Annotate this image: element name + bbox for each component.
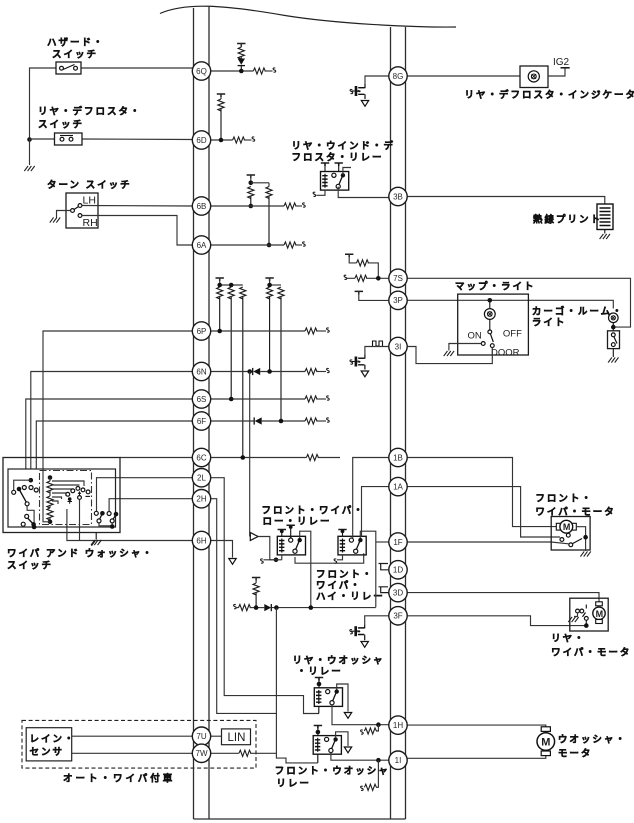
high relay contact riser to 1F line (360, 531, 376, 607)
2L wire right descent (210, 478, 319, 714)
connector 3B (389, 187, 407, 205)
svg-text:ワイパ・: ワイパ・ (316, 580, 362, 592)
7W line with resistor (211, 752, 239, 754)
RH wire to 6A (82, 216, 193, 246)
pull-up resistor above 6D (217, 94, 225, 97)
wire from wiper feedback to front washer relay (276, 608, 317, 763)
svg-text:DOOR: DOOR (491, 348, 520, 359)
junction on 7S row (376, 276, 381, 281)
rear wiper motor M2 (570, 598, 608, 631)
svg-text:マップ・ライト: マップ・ライト (455, 281, 536, 293)
2L wire to washer switch (97, 478, 194, 512)
LH wire to 6B (82, 205, 193, 208)
power tap bank 1 (216, 278, 224, 281)
6H right continuation arrow (210, 541, 233, 558)
6H row left to wiper switch (67, 509, 193, 541)
3B row right to heated print (406, 197, 605, 205)
svg-text:ハイ・リレー: ハイ・リレー (316, 592, 385, 603)
map light switch (489, 319, 491, 329)
svg-text:フロスタ・リレー: フロスタ・リレー (292, 152, 384, 164)
rear defroster indicator lamp L1 (520, 66, 548, 88)
continuation hook 6D (252, 137, 255, 141)
washer lead down to 6H wire (79, 500, 81, 541)
7S right wire to cargo lamp (406, 278, 631, 327)
resistor R 6D row (233, 137, 245, 143)
cargo light door switch (608, 331, 620, 349)
stepped wiring (52, 481, 84, 486)
connector 6S (192, 390, 210, 408)
connector 3F (389, 607, 407, 625)
6S row (210, 398, 305, 400)
junction on 6A row (267, 243, 272, 248)
ground arrow below Q2 (361, 371, 368, 377)
left connector rail (193, 8, 195, 819)
svg-text:3I: 3I (395, 342, 402, 351)
svg-text:M: M (563, 522, 571, 532)
connector 3D (389, 583, 407, 601)
svg-text:6N: 6N (196, 367, 206, 376)
3F wire right to rear motor (406, 616, 587, 626)
svg-text:OFF: OFF (503, 329, 522, 340)
upper feed resistor row (345, 254, 353, 257)
6C row (210, 457, 306, 459)
connector 6H (192, 531, 210, 549)
turn switch common to ground (57, 211, 71, 218)
junction 6D (219, 138, 224, 143)
DOOR contact wire to 3I (406, 347, 493, 364)
LIN transceiver (211, 735, 222, 737)
sensing resistor at 1I (376, 760, 378, 787)
wiper switch lower blade (27, 506, 34, 527)
continuation hook 6A (303, 242, 306, 246)
svg-text:ワイパ・モータ: ワイパ・モータ (551, 647, 631, 659)
6P left wire to wiper switch (43, 331, 193, 469)
power tap bank 2 (265, 278, 273, 281)
junction at defroster branch (27, 137, 32, 142)
row junctions and wire (272, 607, 376, 609)
svg-text:フロント・ワイパ・: フロント・ワイパ・ (262, 505, 365, 517)
1F wire right to motor switch (406, 542, 569, 544)
8G left wire to transistor (365, 76, 391, 84)
svg-text:1D: 1D (393, 566, 403, 575)
8G right wire to indicator (406, 75, 521, 77)
continuation hook 6B (303, 203, 306, 207)
auto wiper unit dash-dot box (40, 471, 92, 525)
connector 3I (389, 337, 407, 355)
6F row (210, 420, 254, 422)
transistor Q1 (body control output) (359, 84, 365, 88)
svg-text:1F: 1F (393, 538, 402, 547)
connector 1A (389, 477, 407, 495)
svg-text:6Q: 6Q (196, 67, 207, 76)
svg-text:オート・ワイパ付車: オート・ワイパ付車 (63, 773, 175, 785)
rear defroster switch SW2 (30, 138, 55, 140)
svg-text:7S: 7S (393, 274, 403, 283)
svg-text:IG2: IG2 (553, 57, 570, 68)
svg-text:6D: 6D (196, 136, 206, 145)
svg-text:1I: 1I (395, 756, 402, 765)
6Q row wire (210, 70, 253, 72)
ground arrow below Q1 (361, 101, 368, 107)
connector 6A (192, 236, 210, 254)
svg-text:ウオッシャ・: ウオッシャ・ (558, 735, 627, 746)
connector 6B (192, 197, 210, 215)
diode D (right) (264, 604, 271, 611)
svg-text:センサ: センサ (30, 747, 65, 758)
connector 1F (389, 533, 407, 551)
resistor to 6A row (266, 187, 272, 199)
svg-text:スイッチ: スイッチ (52, 50, 98, 61)
rain sensor wires (72, 735, 193, 737)
svg-text:RH: RH (83, 217, 98, 229)
svg-text:レイン・: レイン・ (30, 734, 76, 745)
connector 6D (192, 131, 210, 149)
map light bulb L2 (488, 298, 493, 303)
2H wire right descent (210, 499, 276, 714)
continuation hook 6Q (273, 68, 276, 72)
pull-up resistor (252, 578, 260, 581)
resistor col to 6N (267, 287, 273, 299)
resistor col to 6C (240, 287, 246, 299)
right connector rail (390, 27, 392, 819)
junction 6Q (239, 69, 244, 74)
connector 2L (192, 469, 210, 487)
rear window defroster relay RY1 (321, 172, 349, 191)
svg-text:リレー: リレー (276, 779, 311, 790)
heated print element (defogger grid) (597, 204, 613, 230)
ground below heated print (600, 234, 610, 239)
intermittent contacts (66, 492, 70, 496)
sensing resistor at 1H (376, 725, 378, 731)
1D bracket (379, 564, 391, 570)
svg-text:1H: 1H (393, 721, 403, 730)
1B wire into high relay (193, 457, 210, 459)
svg-text:6H: 6H (196, 536, 206, 545)
2H wire to washer switch (109, 499, 193, 512)
svg-text:6F: 6F (197, 417, 206, 426)
svg-text:LH: LH (83, 195, 96, 207)
rear washer relay RY4 (314, 688, 342, 707)
motor feed to ground (576, 527, 585, 551)
svg-text:2L: 2L (197, 474, 206, 483)
front washer relay contact branch to arrow (336, 732, 348, 746)
3P right wire through map light to cargo lamp (406, 300, 614, 308)
svg-text:6A: 6A (197, 241, 207, 250)
auto wiper dashed boundary (22, 720, 256, 768)
low relay coil tap (278, 530, 286, 533)
ground arrow below Q3 (361, 642, 368, 648)
1F wire (376, 541, 391, 543)
svg-text:スイッチ: スイッチ (7, 561, 53, 572)
high relay coil low side hook (337, 555, 343, 560)
resistor R 6B row (284, 203, 296, 209)
svg-text:6B: 6B (197, 202, 207, 211)
low relay contact riser to wiper motor line (300, 531, 311, 607)
diode D (down) (238, 59, 245, 65)
branch to second resistor (251, 182, 269, 184)
connector 6C (192, 448, 210, 466)
6N left wire to wiper switch (31, 372, 193, 470)
svg-text:リヤ・: リヤ・ (551, 634, 586, 645)
svg-text:1A: 1A (393, 482, 403, 491)
connector 6N (192, 362, 210, 380)
connector 7S (389, 269, 407, 287)
svg-text:ロー・リレー: ロー・リレー (263, 517, 332, 528)
wiper switch contacts (29, 478, 34, 483)
wiper and washer switch outer box (3, 458, 120, 533)
rear washer relay power tap (315, 678, 323, 681)
front washer relay output to 1I (331, 752, 391, 760)
ON contact to ground (449, 344, 481, 351)
1B wire right to motor (406, 458, 557, 527)
low relay switch tap (287, 525, 295, 528)
relay power taps (321, 163, 329, 166)
connector 7U (192, 727, 210, 745)
coil low side to hook (317, 190, 326, 195)
svg-text:3B: 3B (393, 192, 403, 201)
relay switch sense wire (343, 168, 351, 176)
resistor col to 6S (228, 287, 234, 299)
svg-text:スイッチ: スイッチ (38, 120, 84, 131)
svg-text:M: M (541, 737, 550, 749)
6F left wire to wiper switch (36, 421, 193, 469)
resistor R 6Q row (253, 68, 265, 74)
6B row wire (210, 205, 284, 207)
svg-text:熱線プリント: 熱線プリント (533, 214, 602, 226)
cargo room lamp L3 (609, 313, 619, 323)
wiper and washer switch inner box (8, 469, 116, 527)
1H wire right to washer motor (406, 725, 546, 729)
connector 6F (192, 412, 210, 430)
svg-text:ライト: ライト (532, 318, 567, 329)
6C left wire merging with wiper switch box top (120, 457, 193, 459)
resistor R 6A row (284, 242, 296, 248)
rain sensor unit (26, 728, 71, 761)
junction (249, 181, 254, 186)
feedback row hook (234, 604, 237, 608)
connector 3P (389, 291, 407, 309)
rear motor park contacts (585, 605, 587, 609)
connector 6Q (192, 62, 210, 80)
washer motor M3 (541, 727, 550, 732)
front wiper high relay RY3 (338, 536, 366, 555)
svg-text:6P: 6P (197, 327, 207, 336)
connector 2H (192, 490, 210, 508)
front wiper motor M1 (551, 517, 590, 551)
connector 1B (389, 448, 407, 466)
svg-text:フロント・: フロント・ (316, 570, 374, 581)
svg-text:6S: 6S (197, 395, 207, 404)
front wiper low relay RY2 (277, 536, 305, 555)
svg-text:フロント・ウオッシャ: フロント・ウオッシャ (275, 766, 390, 777)
svg-text:LIN: LIN (228, 732, 246, 744)
resistor to 6B row (248, 187, 254, 199)
svg-text:3P: 3P (393, 296, 403, 305)
connector 8G (389, 67, 407, 85)
rear washer relay output to 1H (332, 705, 391, 725)
svg-text:ワイパ アンド ウォッシャ・: ワイパ アンド ウォッシャ・ (7, 548, 154, 560)
transistor Q3 (359, 624, 365, 628)
arrow into low relay (250, 533, 258, 541)
svg-text:ハザード・: ハザード・ (47, 38, 105, 49)
svg-text:リヤ・デフロスタ・: リヤ・デフロスタ・ (38, 106, 142, 118)
6S left wire to wiper switch (26, 399, 193, 469)
6P row (210, 330, 305, 332)
1A wire right to motor switch (406, 487, 561, 537)
svg-text:モータ: モータ (558, 748, 593, 760)
front washer relay power tap (314, 726, 322, 729)
hazard switch wiring (81, 67, 193, 69)
rear washer relay contact branch to arrow (337, 684, 348, 712)
resistor col to 6P (217, 287, 223, 299)
svg-text:8G: 8G (393, 72, 404, 81)
high relay coil tap (338, 530, 346, 533)
connector 1H (389, 716, 407, 734)
6N row (210, 371, 253, 373)
svg-text:1B: 1B (393, 453, 403, 462)
control unit bottom edge (194, 818, 406, 820)
wire to ground (29, 139, 31, 165)
washer switch contacts (94, 511, 98, 515)
control unit top continuation curve (160, 6, 456, 27)
svg-text:ON: ON (468, 331, 482, 342)
pull-up with diode above 6Q junction (237, 44, 245, 47)
1A wire into high relay (362, 487, 391, 537)
IG2 power tap (561, 67, 570, 69)
hazard switch SW1 (56, 62, 81, 74)
3F left wire (365, 616, 391, 624)
7S row: hook, resistor (344, 275, 347, 279)
power tap above 6B (247, 175, 255, 178)
intermittent unit resistor chain (48, 475, 53, 480)
junction on 6B row (249, 204, 254, 209)
connector 7W (192, 744, 210, 762)
svg-text:7U: 7U (196, 732, 206, 741)
pulse signal icon (373, 341, 383, 346)
relay contact to 3B (338, 187, 390, 198)
ground (hazard/defroster common) (24, 166, 34, 171)
junction below cargo lamp (612, 323, 614, 331)
switch to ground (612, 349, 614, 357)
svg-text:・リレー: ・リレー (297, 667, 343, 678)
feedback row resistor (239, 605, 251, 611)
1I wire right to washer motor (406, 754, 546, 759)
3I left wire (365, 347, 391, 355)
svg-text:M: M (596, 609, 604, 619)
connector 1D (389, 561, 407, 579)
svg-text:リヤ・ウインド・デ: リヤ・ウインド・デ (292, 140, 396, 152)
wire to IG2 (548, 69, 565, 77)
3P feed tap (355, 291, 363, 294)
3D bracket (379, 587, 391, 593)
svg-text:ターン スイッチ: ターン スイッチ (47, 179, 132, 191)
svg-text:7W: 7W (196, 749, 208, 758)
low relay coil low side (281, 555, 283, 560)
relay drive line from 6N down to low relay (249, 372, 251, 537)
6D row wire (210, 139, 233, 141)
svg-text:3F: 3F (393, 612, 402, 621)
3D wire right to rear motor (406, 593, 600, 604)
front washer relay RY5 (313, 736, 341, 755)
svg-text:6C: 6C (196, 453, 206, 462)
svg-text:2H: 2H (196, 495, 206, 504)
svg-text:リヤ・デフロスタ・インジケータ: リヤ・デフロスタ・インジケータ (465, 89, 634, 101)
svg-text:3D: 3D (393, 588, 403, 597)
connector 6P (192, 322, 210, 340)
svg-text:リヤ・ウオッシャ: リヤ・ウオッシャ (293, 656, 385, 667)
low relay output pin (295, 553, 364, 563)
resistor col to 6F (278, 287, 284, 299)
6A row wire (210, 244, 284, 246)
transistor Q2 (359, 355, 365, 359)
motor park switch (560, 538, 564, 542)
connector 1I (389, 751, 407, 769)
switch body ground (95, 533, 97, 540)
svg-text:フロント・: フロント・ (535, 494, 593, 505)
